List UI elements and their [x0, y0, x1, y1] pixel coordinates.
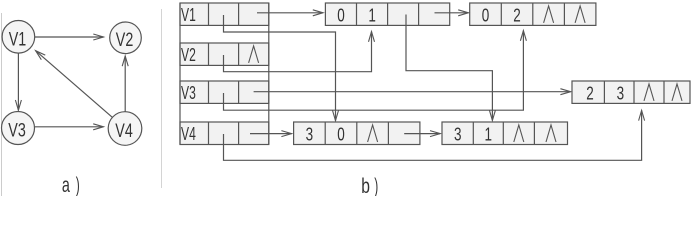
- null in (2,3) tlink: [672, 84, 682, 101]
- null in (3,0) hlink: [368, 125, 378, 142]
- edge V1->V2: [35, 36, 104, 38]
- svg-text:V2: V2: [116, 30, 134, 51]
- wire V1 firstin to (3,0): [224, 15, 336, 121]
- wire V2 firstin to (0,1): [224, 32, 372, 72]
- svg-text:0: 0: [337, 5, 345, 25]
- vertex V2: [110, 22, 142, 54]
- wire V3 firstout to (2,3): [254, 91, 571, 93]
- edge V4->V1: [36, 51, 113, 118]
- vertex V4: [108, 112, 142, 146]
- edge V3->V4: [35, 126, 104, 128]
- null in V2 firstout: [249, 46, 259, 63]
- svg-text:1: 1: [368, 5, 376, 25]
- vertex V1: [2, 21, 35, 54]
- arc node (3,1): [442, 122, 568, 145]
- edge V4->V2: [124, 56, 126, 112]
- svg-text:3: 3: [617, 83, 625, 103]
- wire V4 firstout to (3,0): [250, 133, 292, 135]
- arc node (0,2): [470, 3, 596, 25]
- svg-text:0: 0: [482, 5, 490, 25]
- svg-text:3: 3: [306, 125, 314, 145]
- wire V4 firstin to (2,3): [224, 110, 642, 160]
- svg-text:1: 1: [485, 125, 493, 145]
- wire (3,0) tlink to (3,1): [404, 133, 440, 135]
- wire (0,1) tlink to (0,2): [435, 12, 469, 14]
- svg-text:2: 2: [586, 83, 594, 103]
- svg-text:V2: V2: [181, 45, 196, 65]
- null in (3,1) hlink: [514, 125, 524, 142]
- svg-text:V3: V3: [181, 83, 196, 103]
- svg-text:V1: V1: [9, 30, 27, 51]
- scan artifact line center: [161, 9, 163, 188]
- svg-text:b): b): [361, 175, 378, 196]
- null in (0,2) tlink: [575, 6, 585, 23]
- null in (2,3) hlink: [644, 84, 654, 101]
- svg-text:a): a): [62, 174, 80, 196]
- svg-text:V1: V1: [181, 5, 196, 25]
- head node V4: [180, 122, 269, 145]
- edge V1->V3: [17, 53, 19, 110]
- wire V3 firstin to (0,2): [224, 31, 524, 111]
- svg-text:V4: V4: [115, 121, 133, 142]
- svg-text:2: 2: [513, 5, 521, 25]
- wire (0,1) hlink to (3,1): [406, 15, 492, 121]
- svg-text:V4: V4: [181, 124, 196, 144]
- vertex V3: [2, 112, 35, 145]
- wire V1 firstout to (0,1): [257, 12, 323, 14]
- head column right border: [268, 3, 270, 145]
- arc node (3,0): [294, 122, 420, 145]
- svg-text:3: 3: [454, 125, 462, 145]
- head node V3: [180, 81, 269, 103]
- head column left border: [179, 3, 181, 145]
- svg-text:V3: V3: [8, 120, 26, 141]
- scan artifact line left edge: [1, 13, 3, 196]
- arc node (2,3): [572, 81, 690, 103]
- null in (3,1) tlink: [546, 125, 556, 142]
- null in (0,2) hlink: [544, 6, 554, 23]
- arc node (0,1): [325, 3, 449, 25]
- svg-text:0: 0: [337, 125, 345, 145]
- head node V2: [180, 43, 269, 65]
- head node V1: [180, 3, 269, 25]
